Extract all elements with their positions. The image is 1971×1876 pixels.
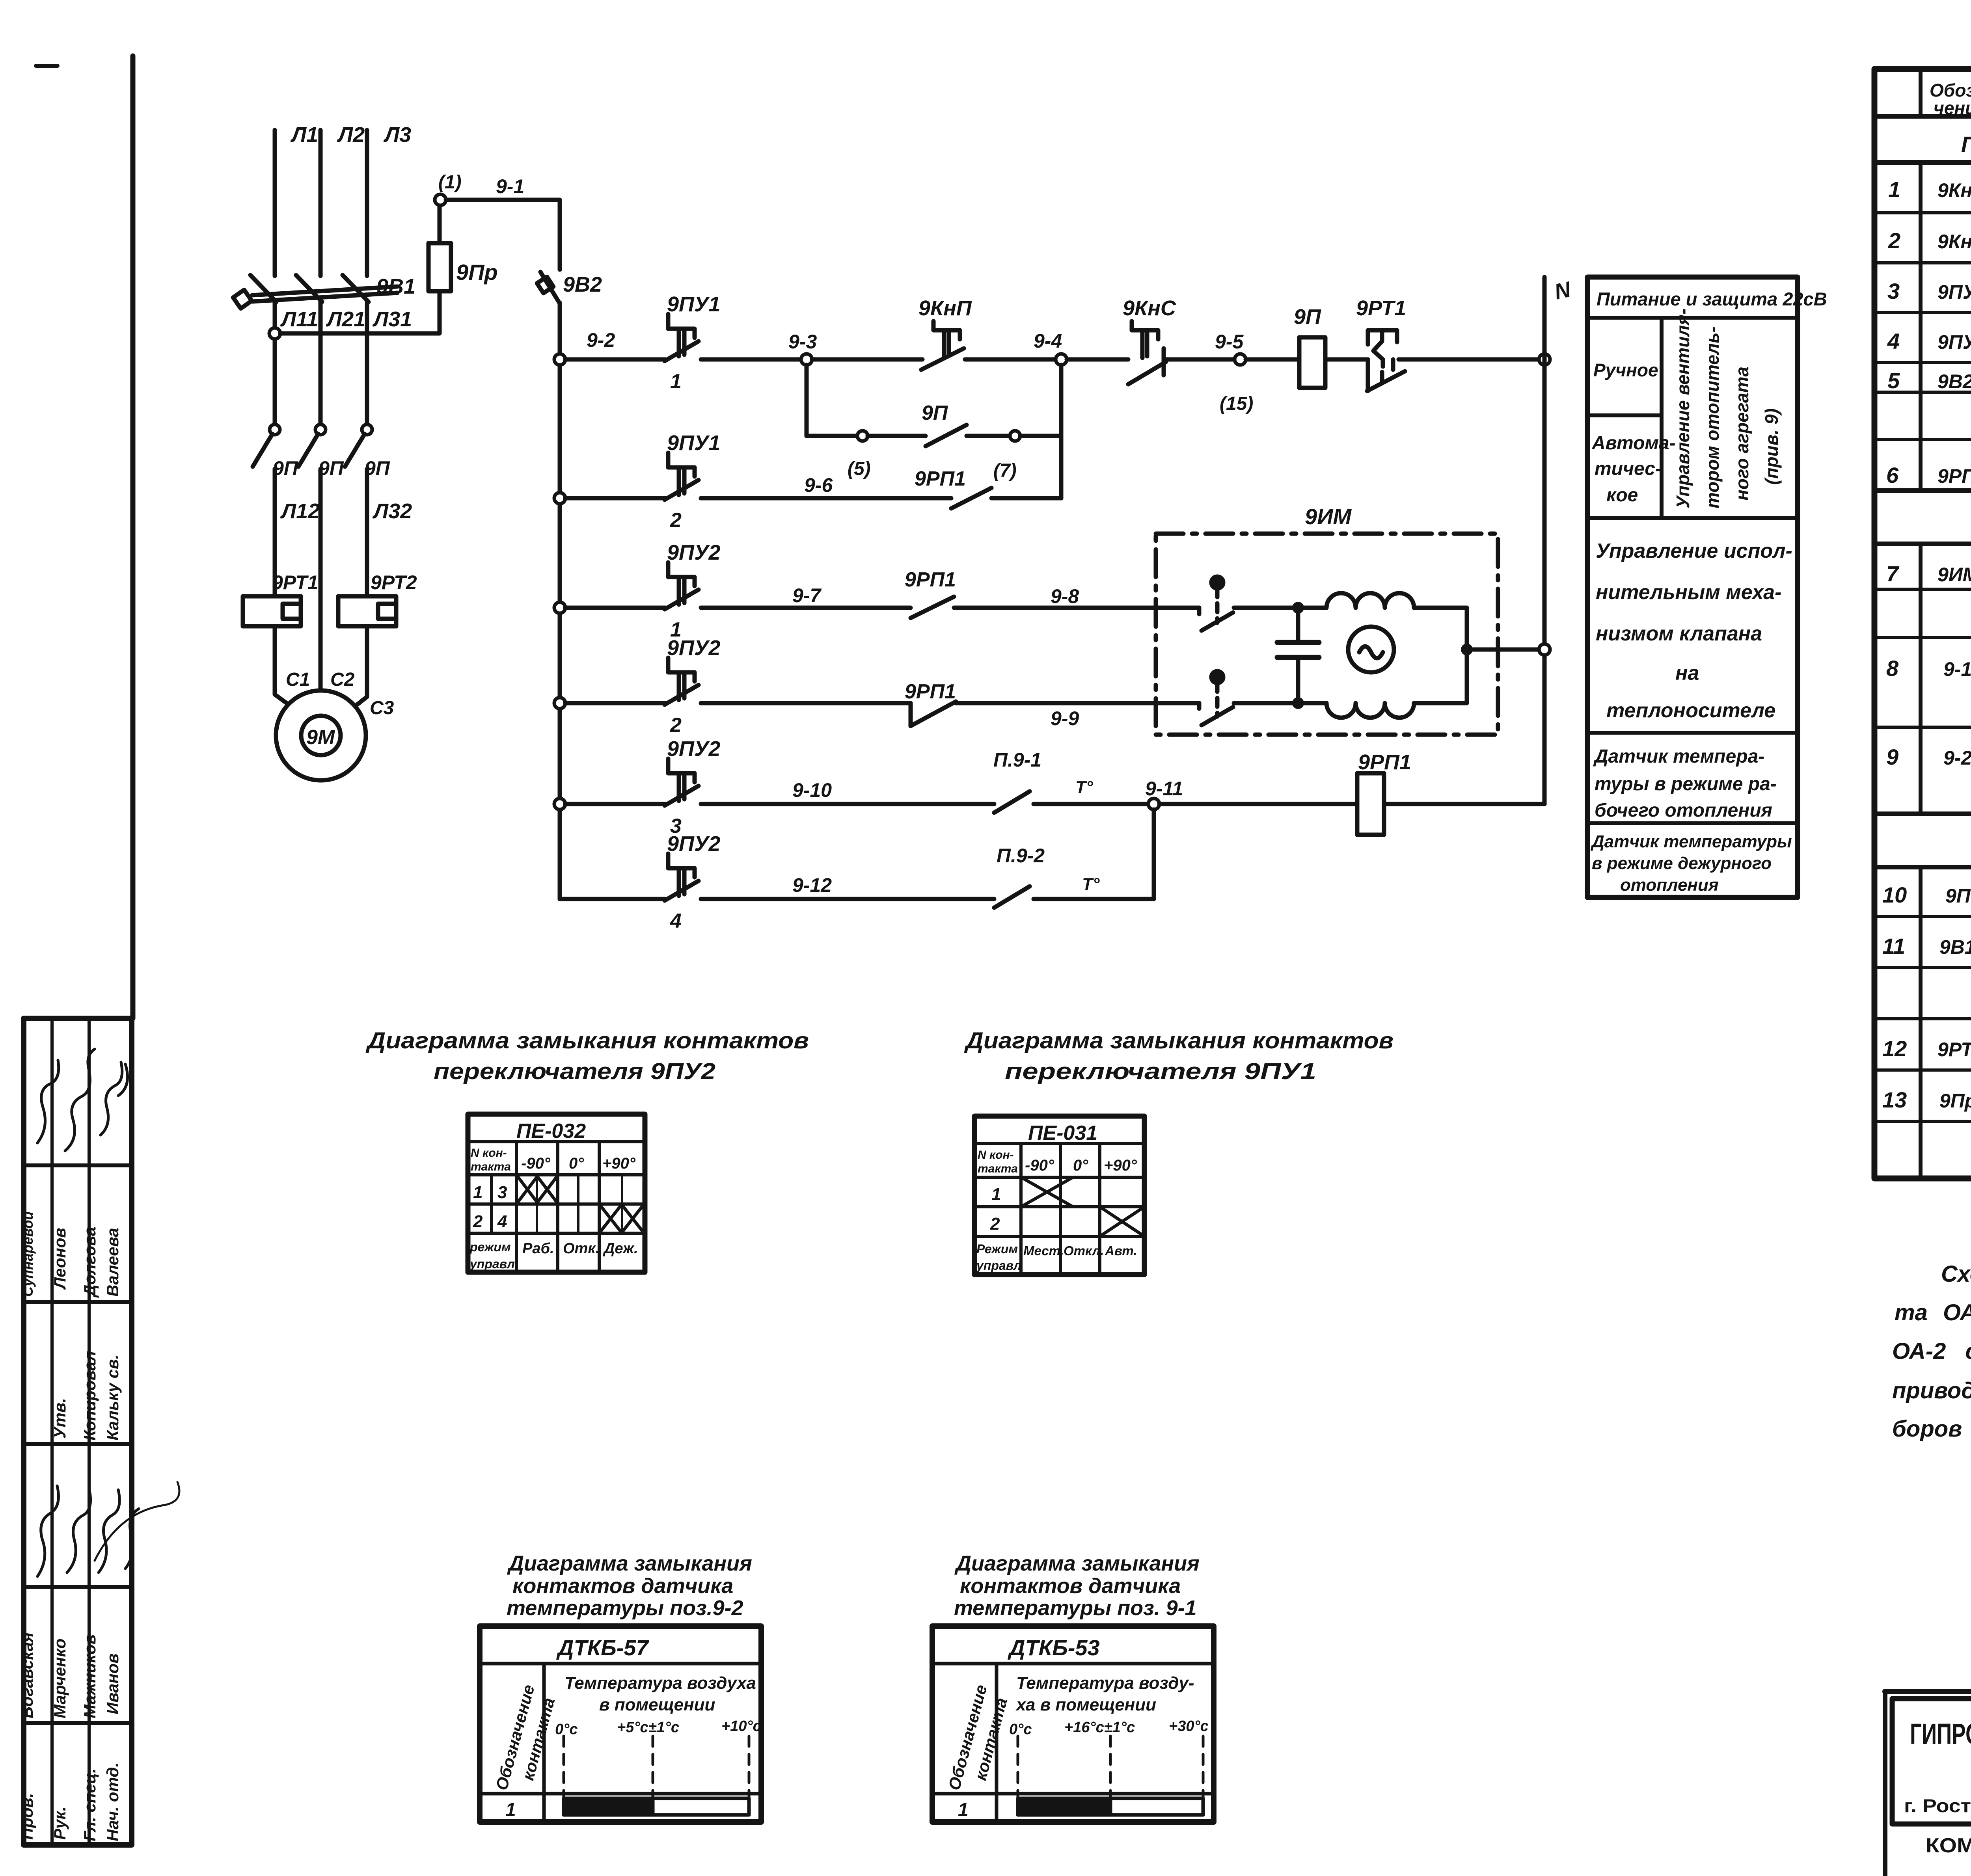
wire row2 right xyxy=(991,496,1061,501)
svg-text:тором отопитель-: тором отопитель- xyxy=(1702,326,1723,508)
contactor 9P pole 2 xyxy=(315,424,326,435)
svg-text:11: 11 xyxy=(1882,934,1905,958)
svg-text:1: 1 xyxy=(1888,177,1900,202)
svg-text:ПЕ-032: ПЕ-032 xyxy=(516,1120,586,1143)
svg-text:3: 3 xyxy=(1887,279,1900,303)
svg-text:9КнС: 9КнС xyxy=(1937,231,1971,253)
sensor diagram table DTKB-57 xyxy=(480,1626,761,1822)
svg-text:контактов датчика: контактов датчика xyxy=(960,1574,1181,1598)
svg-text:Диаграмма замыкания контакто: Диаграмма замыкания контактов xyxy=(964,1028,1393,1053)
svg-text:в режиме дежурного: в режиме дежурного xyxy=(1592,854,1772,873)
svg-text:привода на №10. Индекс в: привода на №10. Индекс в обозначении поз… xyxy=(1892,1378,1971,1403)
svg-text:Автома-: Автома- xyxy=(1591,433,1676,454)
wire L11 to fuse 9Pr xyxy=(280,291,440,333)
svg-text:г. Ростов-на-Дону 1976 г.: г. Ростов-на-Дону 1976 г. xyxy=(1904,1795,1971,1816)
svg-text:4: 4 xyxy=(1887,329,1900,354)
svg-text:9-2: 9-2 xyxy=(1943,747,1971,769)
svg-text:режим: режим xyxy=(469,1240,511,1254)
wire to button 9KnS xyxy=(1067,357,1128,362)
svg-text:3: 3 xyxy=(497,1183,507,1202)
svg-text:Ручное: Ручное xyxy=(1593,360,1658,380)
limit switch lower in 9IM xyxy=(1211,671,1223,683)
svg-text:9РТ1: 9РТ1 xyxy=(272,571,319,594)
svg-text:та ОА-1с приводом №9 Для: та ОА-1с приводом №9 Для отопительного а… xyxy=(1895,1300,1971,1325)
motor 9M xyxy=(276,690,366,780)
breaker 9V1 pole 3 xyxy=(343,275,369,302)
node 9-11 xyxy=(1148,798,1159,810)
svg-text:0°: 0° xyxy=(1073,1157,1088,1174)
svg-text:9-8: 9-8 xyxy=(1051,585,1079,607)
svg-text:+90°: +90° xyxy=(602,1155,636,1172)
svg-text:9-6: 9-6 xyxy=(804,474,833,496)
svg-text:9РП1: 9РП1 xyxy=(905,680,956,703)
svg-text:9РП1: 9РП1 xyxy=(915,467,966,490)
node row3 on rail xyxy=(554,602,565,613)
svg-text:Пост: Пост xyxy=(1961,132,1971,156)
svg-text:Температура возду-: Температура возду- xyxy=(1016,1673,1194,1693)
svg-text:(15): (15) xyxy=(1220,393,1253,414)
svg-text:КОМПРЕССОРНАЯ: КОМПРЕССОРНАЯ xyxy=(1926,1834,1971,1857)
svg-text:Управление испол-: Управление испол- xyxy=(1596,540,1792,562)
wire to coil 9P xyxy=(1246,357,1299,362)
limit switch upper in 9IM xyxy=(1211,577,1223,588)
svg-text:9ПУ1: 9ПУ1 xyxy=(667,292,720,316)
wire to node 9-5 xyxy=(1166,357,1240,362)
wire 9-12 xyxy=(701,897,994,901)
svg-text:9П: 9П xyxy=(1945,885,1971,907)
svg-text:отопления: отопления xyxy=(1620,875,1719,895)
X marks PE-032 row 1 xyxy=(516,1175,538,1204)
wire 9-10 xyxy=(701,802,994,806)
wire row1 to N xyxy=(1399,357,1544,362)
wire 9-8 xyxy=(954,606,1199,610)
svg-text:переключателя 9ПУ1: переключателя 9ПУ1 xyxy=(1005,1059,1316,1084)
svg-text:5: 5 xyxy=(1887,368,1900,393)
thermal relay 9RT2 heater xyxy=(338,596,396,626)
svg-text:Утв.: Утв. xyxy=(50,1398,69,1439)
svg-text:Л12: Л12 xyxy=(280,499,320,523)
svg-text:Мест.: Мест. xyxy=(1023,1243,1064,1258)
bar open DTKB-57 xyxy=(653,1798,749,1815)
svg-text:9ПУ2: 9ПУ2 xyxy=(1937,331,1971,353)
svg-text:9-3: 9-3 xyxy=(788,331,817,353)
wire L21 xyxy=(319,301,323,424)
svg-text:Режим: Режим xyxy=(976,1242,1018,1256)
wire 9-6 xyxy=(701,496,951,501)
node row1 at N rail xyxy=(1539,354,1550,365)
svg-text:Температура воздуха: Температура воздуха xyxy=(564,1673,756,1693)
svg-text:ха в помещении: ха в помещении xyxy=(1015,1695,1156,1714)
svg-text:+30°с: +30°с xyxy=(1169,1718,1209,1735)
svg-text:боров соответствует номер: боров соответствует номеру привода. xyxy=(1892,1416,1971,1442)
company box xyxy=(1892,1699,1971,1824)
svg-text:Долгова: Долгова xyxy=(80,1227,99,1298)
svg-text:Питание и защита 22сВ: Питание и защита 22сВ xyxy=(1597,288,1827,309)
legend cell manual xyxy=(1660,318,1664,518)
bar closed DTKB-53 xyxy=(1018,1798,1110,1815)
wire to cap node lower xyxy=(1234,701,1326,705)
svg-text:теплоносителе: теплоносителе xyxy=(1606,699,1775,722)
signature scribbles top band xyxy=(37,1060,59,1143)
coil 9P xyxy=(1299,337,1325,388)
svg-text:температуры поз. 9-1: температуры поз. 9-1 xyxy=(954,1596,1197,1620)
svg-text:+90°: +90° xyxy=(1104,1157,1137,1174)
svg-text:(7): (7) xyxy=(993,460,1017,481)
winding upper in 9IM xyxy=(1326,593,1414,608)
wire L31 xyxy=(365,301,369,424)
wire rail left (control bus) xyxy=(558,303,562,899)
svg-text:ОА-2 схема аналогична да: ОА-2 схема аналогична данной с заменой н… xyxy=(1892,1338,1971,1364)
svg-text:кое: кое xyxy=(1606,485,1638,506)
node 9-4 xyxy=(1056,354,1067,365)
wire seal row left xyxy=(807,434,858,438)
table vertical lines xyxy=(1921,69,1971,1178)
contact diagram table PE-032 xyxy=(468,1114,645,1272)
svg-text:чение: чение xyxy=(1934,98,1971,118)
svg-text:1: 1 xyxy=(473,1183,483,1202)
components table frame xyxy=(1874,69,1971,1178)
node (7) xyxy=(1010,431,1020,441)
wire 9-7 xyxy=(701,606,911,610)
svg-text:1: 1 xyxy=(670,370,682,393)
signature scribbles lower band xyxy=(37,1486,58,1576)
signature table frame xyxy=(24,1018,132,1845)
svg-text:9ПУ2: 9ПУ2 xyxy=(667,636,720,660)
wire 9IM to N rail xyxy=(1467,648,1539,652)
svg-text:Гл. спец.: Гл. спец. xyxy=(80,1768,99,1841)
svg-text:Авт.: Авт. xyxy=(1105,1243,1137,1258)
X mark PE-031 row 1 xyxy=(1021,1177,1073,1207)
wire to node (7) xyxy=(967,434,1010,438)
winding lower in 9IM xyxy=(1326,703,1414,718)
svg-text:9М: 9М xyxy=(306,726,335,749)
svg-text:2: 2 xyxy=(473,1212,483,1231)
svg-text:9-1: 9-1 xyxy=(1943,658,1971,680)
wire seal to vertical xyxy=(1020,434,1061,438)
rail N xyxy=(1543,277,1547,804)
svg-text:Л2: Л2 xyxy=(337,123,365,147)
wire to node 9-11 xyxy=(1034,802,1154,806)
svg-text:ДТКБ-57: ДТКБ-57 xyxy=(556,1635,650,1660)
svg-text:2: 2 xyxy=(670,714,682,737)
X mark PE-031 row 2 xyxy=(1100,1207,1144,1236)
svg-text:низмом клапана: низмом клапана xyxy=(1596,622,1762,645)
svg-text:Датчик температуры: Датчик температуры xyxy=(1590,832,1792,851)
svg-text:Рук.: Рук. xyxy=(50,1807,69,1840)
svg-text:в помещении: в помещении xyxy=(599,1695,715,1714)
svg-text:9КнП: 9КнП xyxy=(918,296,972,320)
svg-text:Л1: Л1 xyxy=(290,123,318,147)
node 9-3 xyxy=(801,354,812,365)
svg-text:нительным меха-: нительным меха- xyxy=(1596,581,1781,604)
svg-text:-90°: -90° xyxy=(1025,1157,1054,1174)
breaker 9V1 pole 2 xyxy=(296,275,322,302)
svg-text:9КнП: 9КнП xyxy=(1937,179,1971,201)
svg-text:(прив. 9): (прив. 9) xyxy=(1761,408,1782,485)
svg-text:Деж.: Деж. xyxy=(603,1240,638,1257)
svg-text:9РП1: 9РП1 xyxy=(905,568,956,591)
svg-text:Марченко: Марченко xyxy=(50,1638,69,1718)
svg-text:9-5: 9-5 xyxy=(1215,331,1244,353)
svg-text:П.9-2: П.9-2 xyxy=(997,845,1045,867)
wire lower right corner xyxy=(1414,650,1467,703)
svg-text:ГИПРОСТРОЙДОРМАШ: ГИПРОСТРОЙДОРМАШ xyxy=(1910,1717,1971,1750)
svg-text:Управление вентиля-: Управление вентиля- xyxy=(1673,309,1693,508)
svg-text:8: 8 xyxy=(1886,656,1899,681)
svg-text:С3: С3 xyxy=(370,698,394,718)
wire 9-3 to button xyxy=(812,357,922,362)
svg-text:N кон-: N кон- xyxy=(978,1148,1014,1161)
sensor diagram table DTKB-53 xyxy=(932,1626,1214,1822)
svg-text:Отк.: Отк. xyxy=(563,1240,600,1257)
sheet frame top tick left xyxy=(36,64,58,68)
breaker 9V1 pole 1 xyxy=(250,275,276,302)
svg-text:Л11: Л11 xyxy=(280,307,318,331)
svg-text:бочего отопления: бочего отопления xyxy=(1595,800,1772,821)
svg-text:Леонов: Леонов xyxy=(50,1228,69,1290)
svg-text:9П: 9П xyxy=(1294,305,1321,329)
svg-text:9ПУ2: 9ПУ2 xyxy=(667,737,720,761)
svg-text:12: 12 xyxy=(1882,1036,1907,1061)
svg-text:9В1: 9В1 xyxy=(1939,936,1971,958)
svg-text:0°с: 0°с xyxy=(555,1721,578,1738)
bar open DTKB-53 xyxy=(1110,1798,1203,1815)
svg-text:температуры поз.9-2: температуры поз.9-2 xyxy=(507,1596,743,1620)
svg-text:Диаграмма замыкания: Диаграмма замыкания xyxy=(507,1552,752,1575)
svg-text:9ПУ1: 9ПУ1 xyxy=(1937,281,1971,303)
wire C1 xyxy=(275,626,292,707)
legend box power and protection xyxy=(1587,277,1798,897)
svg-text:9РТ1: 9РТ1 xyxy=(1937,1038,1971,1061)
svg-text:Раб.: Раб. xyxy=(522,1240,554,1257)
svg-text:13: 13 xyxy=(1882,1087,1907,1112)
svg-text:Пров.: Пров. xyxy=(18,1793,36,1840)
svg-text:Иванов: Иванов xyxy=(103,1653,122,1714)
svg-text:(5): (5) xyxy=(848,458,871,479)
wire row1 mid xyxy=(701,357,807,362)
wire row4 mid xyxy=(701,701,911,705)
svg-text:6: 6 xyxy=(1886,463,1899,488)
wire branch 9-3 down xyxy=(805,365,809,436)
svg-text:ПЕ-031: ПЕ-031 xyxy=(1028,1122,1097,1145)
wire C3 xyxy=(352,626,367,709)
svg-text:2: 2 xyxy=(990,1214,1000,1234)
svg-text:9РП1: 9РП1 xyxy=(1937,465,1971,487)
wire to node 9-4 xyxy=(965,357,1061,362)
wire L32 xyxy=(365,469,369,596)
contactor 9P pole 3 xyxy=(362,424,372,435)
svg-text:управл: управл xyxy=(469,1257,515,1271)
svg-text:Т°: Т° xyxy=(1082,875,1100,894)
svg-text:9-12: 9-12 xyxy=(792,874,832,896)
svg-text:9В2: 9В2 xyxy=(1937,370,1971,393)
wire row2 left xyxy=(565,496,665,501)
svg-text:4: 4 xyxy=(670,910,682,932)
svg-text:-90°: -90° xyxy=(521,1155,551,1172)
wire row4 left xyxy=(565,701,665,705)
svg-text:9КнС: 9КнС xyxy=(1123,296,1176,320)
svg-text:9РП1: 9РП1 xyxy=(1358,750,1411,774)
table horizontal lines xyxy=(1874,114,1971,119)
svg-text:1: 1 xyxy=(991,1185,1001,1204)
svg-text:4: 4 xyxy=(497,1212,507,1231)
node on L11 to fuse xyxy=(269,328,280,339)
svg-text:переключателя 9ПУ2: переключателя 9ПУ2 xyxy=(434,1059,715,1084)
svg-text:Откл.: Откл. xyxy=(1064,1243,1104,1258)
sheet frame left border xyxy=(130,56,136,1018)
svg-text:ДТКБ-53: ДТКБ-53 xyxy=(1008,1635,1100,1660)
svg-text:9: 9 xyxy=(1886,744,1898,769)
svg-text:Датчик темпера-: Датчик темпера- xyxy=(1593,746,1764,767)
thermal relay 9RT1 heater xyxy=(243,596,301,626)
wire row1 left xyxy=(565,357,665,362)
fuse 9Pr xyxy=(428,243,451,291)
wire 9-9 xyxy=(956,701,1199,705)
svg-text:9-7: 9-7 xyxy=(792,584,822,607)
svg-text:Л32: Л32 xyxy=(372,499,412,523)
svg-text:9-1: 9-1 xyxy=(496,175,524,197)
svg-text:Супнаревой: Супнаревой xyxy=(20,1211,36,1297)
svg-text:Мажников: Мажников xyxy=(80,1634,99,1718)
svg-text:7: 7 xyxy=(1886,561,1900,586)
svg-text:управл: управл xyxy=(976,1258,1021,1273)
wire upper right corner xyxy=(1414,608,1467,650)
wire phase L1 xyxy=(273,130,277,276)
capacitor in 9IM xyxy=(1296,608,1300,642)
svg-text:тичес-: тичес- xyxy=(1595,458,1662,479)
svg-text:Богавская: Богавская xyxy=(18,1632,36,1718)
node row5 on rail xyxy=(554,798,565,810)
svg-text:10: 10 xyxy=(1882,882,1907,907)
svg-text:ного агрегата: ного агрегата xyxy=(1732,367,1752,501)
svg-text:0°: 0° xyxy=(569,1155,584,1172)
svg-text:9ИМ: 9ИМ xyxy=(1305,504,1352,529)
svg-text:1: 1 xyxy=(505,1800,516,1820)
wire phase L2 xyxy=(319,130,323,276)
X marks PE-032 row 2 xyxy=(599,1204,622,1233)
wire L11 xyxy=(273,301,277,424)
svg-text:9-9: 9-9 xyxy=(1051,707,1079,730)
junction 9IM output xyxy=(1461,644,1473,655)
svg-text:1: 1 xyxy=(958,1800,969,1820)
svg-text:9РТ1: 9РТ1 xyxy=(1356,296,1406,320)
wire 9-1 xyxy=(446,200,560,270)
wire coil to 9RT1 xyxy=(1325,357,1368,362)
svg-text:9ПУ2: 9ПУ2 xyxy=(667,541,720,564)
wire to 9P aux xyxy=(868,434,926,438)
svg-text:Л21: Л21 xyxy=(326,307,365,331)
node row4 on rail xyxy=(554,698,565,709)
svg-text:Нач. отд.: Нач. отд. xyxy=(103,1762,122,1841)
node (1) xyxy=(435,194,446,205)
node (5) xyxy=(857,431,868,441)
svg-text:9-2: 9-2 xyxy=(587,329,615,351)
svg-text:9-11: 9-11 xyxy=(1145,778,1183,800)
svg-text:С2: С2 xyxy=(330,669,355,690)
svg-text:такта: такта xyxy=(471,1160,511,1173)
svg-text:N кон-: N кон- xyxy=(471,1146,507,1159)
svg-text:Л3: Л3 xyxy=(383,123,411,147)
wire vertical from 9-4 xyxy=(1059,365,1064,498)
wire row3 left xyxy=(565,606,665,610)
svg-text:9ПУ2: 9ПУ2 xyxy=(667,832,720,856)
svg-text:Схема выполнена для: Схема выполнена для отопительного агрега… xyxy=(1941,1261,1971,1287)
svg-text:туры в режиме ра-: туры в режиме ра- xyxy=(1595,774,1777,795)
svg-text:+5°с±1°с: +5°с±1°с xyxy=(617,1719,679,1736)
svg-text:9В1: 9В1 xyxy=(376,275,415,298)
svg-text:Валеева: Валеева xyxy=(103,1228,122,1297)
svg-text:Кальку св.: Кальку св. xyxy=(103,1355,122,1440)
breaker 9V2 xyxy=(540,272,560,303)
wire L12 xyxy=(273,469,277,596)
svg-text:такта: такта xyxy=(978,1162,1018,1175)
svg-text:контактов датчика: контактов датчика xyxy=(512,1574,733,1598)
svg-text:2: 2 xyxy=(1888,228,1900,253)
svg-text:9-10: 9-10 xyxy=(792,779,832,801)
wire to coil 9RP1 xyxy=(1159,802,1357,806)
svg-text:9П: 9П xyxy=(922,402,948,424)
wire row6 right up to 9-11 xyxy=(1034,810,1154,899)
motor of actuator (~) xyxy=(1348,627,1394,672)
svg-text:+16°с±1°с: +16°с±1°с xyxy=(1064,1719,1135,1736)
svg-text:9ПУ1: 9ПУ1 xyxy=(667,431,720,455)
wire row6 from rail corner xyxy=(560,897,665,901)
svg-text:9РТ2: 9РТ2 xyxy=(371,571,417,594)
svg-text:9Пр: 9Пр xyxy=(456,260,498,285)
svg-text:+10°с: +10°с xyxy=(721,1718,761,1735)
svg-text:П.9-1: П.9-1 xyxy=(993,749,1041,771)
wire L2 to motor xyxy=(319,469,323,692)
wire row5 left xyxy=(565,802,665,806)
node row2 on rail xyxy=(554,493,565,504)
node 9-2 on rail xyxy=(554,354,565,365)
title block frame xyxy=(1885,1689,1971,1694)
svg-text:Диаграмма замыкания контакто: Диаграмма замыкания контактов xyxy=(365,1028,809,1053)
svg-text:0°с: 0°с xyxy=(1009,1721,1032,1738)
wire phase L3 xyxy=(365,130,369,276)
wire coil to N rail bottom xyxy=(1384,802,1544,806)
svg-text:Диаграмма замыкания: Диаграмма замыкания xyxy=(954,1552,1200,1575)
contact diagram table PE-031 xyxy=(974,1116,1144,1275)
svg-text:2: 2 xyxy=(670,509,682,532)
node on N rail mid xyxy=(1539,644,1550,655)
bar closed DTKB-57 xyxy=(564,1798,653,1815)
contactor 9P pole 1 xyxy=(270,424,280,435)
svg-text:на: на xyxy=(1675,662,1699,685)
svg-text:Копировал: Копировал xyxy=(80,1351,99,1440)
svg-text:Л31: Л31 xyxy=(372,307,412,331)
svg-text:9ИМ: 9ИМ xyxy=(1937,564,1971,586)
breaker 9V1 trip bar xyxy=(252,287,397,295)
svg-text:9-4: 9-4 xyxy=(1034,330,1062,352)
wire to cap node upper xyxy=(1234,606,1326,610)
svg-text:Т°: Т° xyxy=(1075,778,1093,797)
node 9-5 xyxy=(1235,354,1246,365)
svg-text:(1): (1) xyxy=(438,172,462,193)
actuator block 9IM dash-dot border xyxy=(1156,534,1498,735)
svg-text:С1: С1 xyxy=(286,669,310,690)
svg-text:9Пр: 9Пр xyxy=(1939,1090,1971,1112)
svg-text:9В2: 9В2 xyxy=(563,273,602,296)
